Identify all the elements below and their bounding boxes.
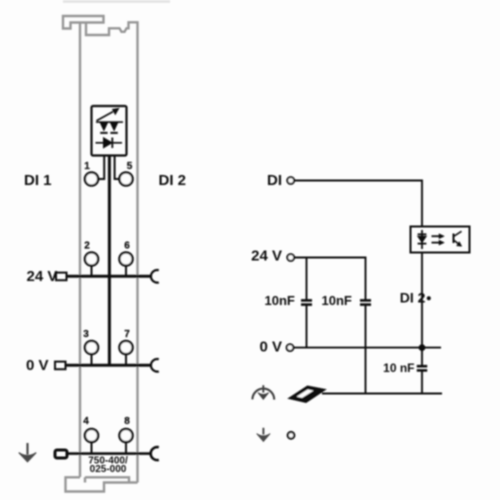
- module housing faint cropped top edge: [63, 0, 170, 3]
- svg-text:24 V: 24 V: [27, 268, 58, 285]
- wire: 0V rail: [293, 347, 441, 349]
- power jumper contact earth (right): [151, 447, 159, 460]
- status LEDs (two down-pointing LEDs with emission arrow): [96, 108, 123, 133]
- module housing left edge: [79, 23, 81, 478]
- capacitor C3 10nF (DI to FE rail): [417, 366, 427, 393]
- capacitor C1 10nF (24V to 0V): [301, 300, 312, 347]
- svg-text:025-000: 025-000: [90, 464, 127, 475]
- wire: 24V rail to cap branches: [294, 258, 366, 301]
- terminal 4: [85, 429, 98, 454]
- wire: center bus from LED box down to 0V rail: [108, 156, 111, 366]
- protection diode in LED box: [96, 138, 123, 149]
- wire: earth rail across module: [67, 452, 152, 455]
- svg-text:DI 1: DI 1: [24, 172, 52, 189]
- terminal 1: [85, 172, 98, 185]
- earth symbol at module left: [19, 443, 36, 462]
- terminal 6: [119, 252, 132, 276]
- svg-text:5: 5: [127, 161, 133, 172]
- svg-text:3: 3: [83, 329, 89, 340]
- optocoupler U2 box: [411, 227, 470, 253]
- terminal 5: [119, 172, 132, 185]
- svg-text:10nF: 10nF: [265, 293, 295, 308]
- earth field wiring terminal: [55, 450, 67, 458]
- terminal 24V (circuit): [287, 254, 294, 261]
- svg-text:6: 6: [124, 241, 130, 252]
- power jumper contact 0V (right): [151, 359, 159, 372]
- wire: branch to capacitor C1: [306, 258, 308, 301]
- optocoupler light arrows: [432, 234, 445, 245]
- terminal 8: [119, 429, 132, 454]
- terminal 7: [119, 341, 132, 365]
- wire: FE bottom rail: [322, 393, 442, 395]
- functional earth electrode symbol: [252, 385, 274, 399]
- DIN rail pictogram (chassis): [289, 386, 325, 402]
- wire: LED box left pin down to terminal 1: [98, 156, 105, 180]
- terminal DI: [287, 177, 294, 184]
- svg-text:24 V: 24 V: [251, 248, 282, 265]
- module housing top profile and right edge: [86, 22, 138, 482]
- 0V field wiring terminal: [55, 362, 66, 370]
- svg-text:DI 2: DI 2: [400, 290, 426, 306]
- capacitor C2 10nF (24V to FE): [360, 300, 371, 393]
- svg-text:10nF: 10nF: [322, 293, 352, 308]
- svg-text:4: 4: [83, 416, 89, 427]
- svg-text:7: 7: [124, 329, 130, 340]
- optocoupler LED: [418, 230, 427, 249]
- svg-text:DI: DI: [267, 172, 282, 189]
- terminal 3: [85, 341, 98, 365]
- svg-text:8: 8: [124, 416, 130, 427]
- LED indicator box U1: [92, 106, 127, 156]
- wire: LED box right pin down to terminal 5: [115, 156, 120, 180]
- wire: 24V rail across module: [67, 275, 152, 278]
- module housing bottom recess: [85, 477, 129, 482]
- 24V field wiring terminal (CAGE CLAMP): [56, 273, 67, 281]
- unconnected circle terminal (bottom): [288, 432, 295, 439]
- wire: 0V rail across module: [66, 364, 152, 367]
- module housing bottom profile with DIN-rail foot: [66, 477, 138, 491]
- small earth arrow symbol (bottom): [257, 428, 270, 442]
- footnote dot after DI 2: [427, 296, 431, 300]
- wire: DI to optocoupler: [294, 181, 422, 227]
- module housing latch hook (top-left): [63, 16, 104, 29]
- svg-text:0 V: 0 V: [26, 357, 49, 374]
- terminal 0V (circuit): [287, 344, 294, 351]
- terminal 2: [85, 252, 98, 276]
- wire: optocoupler down to 0V node: [421, 253, 423, 366]
- svg-text:0 V: 0 V: [259, 339, 282, 356]
- svg-text:10 nF: 10 nF: [383, 361, 414, 375]
- svg-text:DI 2: DI 2: [159, 172, 187, 189]
- svg-text:1: 1: [84, 161, 90, 172]
- junction dot at 0V / DI node: [419, 344, 426, 351]
- svg-text:2: 2: [84, 241, 90, 252]
- power jumper contact 24V (right): [151, 270, 159, 283]
- optocoupler phototransistor: [454, 231, 462, 246]
